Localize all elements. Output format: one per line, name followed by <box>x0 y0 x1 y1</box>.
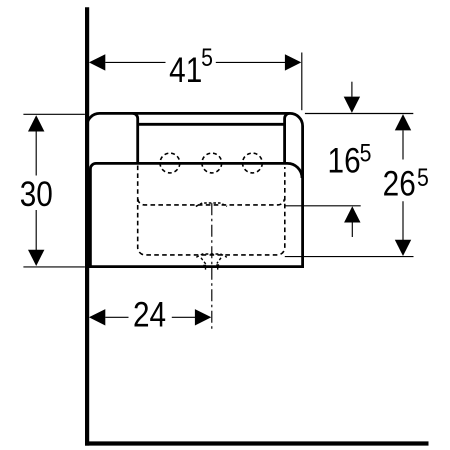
dimension 26.5: dimension line <box>402 130 404 240</box>
right top extension line <box>305 113 413 115</box>
dimension 24: dimension line <box>105 316 195 318</box>
dimension 30: extension line top <box>23 113 85 115</box>
svg-text:5: 5 <box>360 139 372 167</box>
dimension 26.5: label <box>383 164 416 203</box>
dimension 41.5: label <box>169 51 202 90</box>
drain cover at bowl bottom (dashed) <box>196 203 227 206</box>
basin outer outline <box>87 113 303 266</box>
dimension 30: top arrow <box>28 115 44 131</box>
dimension 30: label <box>20 175 53 214</box>
svg-text:41: 41 <box>169 51 202 90</box>
floor <box>85 441 429 445</box>
svg-text:5: 5 <box>417 163 429 191</box>
dimension 30: extension line bottom <box>23 266 85 268</box>
dimension 26.5: bottom arrow <box>395 240 411 256</box>
dimension 26.5: bottom extension line <box>285 256 414 258</box>
dimension 41.5: left arrow <box>89 54 105 70</box>
dimension 16.5: bottom arrow tail <box>351 223 353 238</box>
dimension 24: right arrow <box>195 309 211 325</box>
drain funnel (dashed) <box>196 254 227 271</box>
svg-text:30: 30 <box>20 175 53 214</box>
dimension 24: left arrow <box>89 309 105 325</box>
dimension 30: bottom arrow <box>28 250 44 266</box>
dimension 16.5: bottom arrow <box>344 206 360 222</box>
tap hole circle right <box>243 153 263 173</box>
dimension 41.5: right arrow <box>285 54 301 70</box>
svg-text:24: 24 <box>133 295 166 334</box>
dimension 41.5: extension line right <box>301 53 303 111</box>
hidden bowl inner bottom (dashed) <box>138 199 285 205</box>
dimension 26.5: top arrow <box>395 114 411 130</box>
dimension 30: dimension line <box>35 131 37 250</box>
dimension 16.5: top arrow tail <box>351 82 353 97</box>
wall <box>85 7 89 445</box>
dimension 24: label <box>133 295 166 334</box>
svg-text:5: 5 <box>201 43 213 71</box>
dimension 16.5: label <box>328 141 361 180</box>
dimension 41.5: dimension line <box>105 61 286 63</box>
hidden bowl outer outline (dashed) <box>138 166 285 255</box>
svg-text:16: 16 <box>328 141 361 180</box>
basin lower-body left edge and apron bottom line <box>90 163 302 266</box>
deck inner horizontal edge <box>138 123 285 126</box>
deck inner vertical left <box>133 113 138 163</box>
tap hole circle left <box>160 153 180 173</box>
deck inner vertical right <box>285 113 290 163</box>
dimension 16.5: top arrow <box>344 97 360 113</box>
svg-text:26: 26 <box>383 164 416 203</box>
tap hole circle middle <box>202 153 222 173</box>
dimension 16.5: bottom extension line <box>285 205 361 207</box>
centerline (dash-dot) <box>211 203 213 331</box>
